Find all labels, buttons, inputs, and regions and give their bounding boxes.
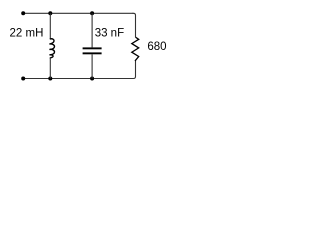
wire capacitor top lead <box>91 13 93 47</box>
wire capacitor bottom lead <box>91 54 93 78</box>
wire top bus <box>23 12 133 14</box>
node junction inductor bottom <box>48 77 52 81</box>
wire inductor bottom lead <box>49 58 51 79</box>
resistor R1 zigzag <box>132 37 139 61</box>
node terminal top-left <box>21 11 25 15</box>
node junction inductor top <box>48 11 52 15</box>
capacitor C1 top plate <box>83 47 102 49</box>
node junction capacitor top <box>90 11 94 15</box>
wire bottom bus <box>23 78 133 80</box>
wire right branch bottom lead <box>133 61 136 79</box>
wire inductor top lead <box>49 13 51 39</box>
wire right branch top lead <box>133 13 136 37</box>
inductor L1 coil <box>49 39 54 58</box>
capacitor C1 bottom plate <box>83 52 102 54</box>
svg-text:33 nF: 33 nF <box>95 28 124 40</box>
node terminal bottom-left <box>21 77 25 81</box>
svg-text:680: 680 <box>147 41 166 53</box>
node junction capacitor bottom <box>90 77 94 81</box>
svg-text:22 mH: 22 mH <box>10 28 44 40</box>
